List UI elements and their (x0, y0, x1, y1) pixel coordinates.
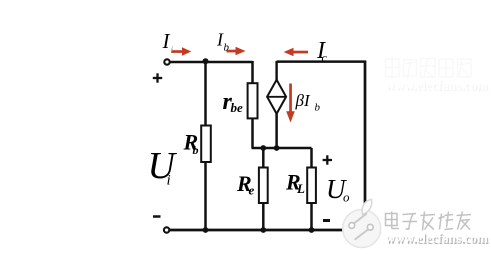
plus sign input (153, 73, 162, 82)
current arrow I_b (227, 47, 246, 56)
watermark text dianzifashaoyou (bottom right) (386, 212, 472, 231)
resistor R_L (307, 168, 316, 204)
node rail-RL junction (309, 227, 315, 233)
svg-text:o: o (343, 190, 350, 205)
svg-text:b: b (193, 143, 199, 157)
wire top-left horizontal (input node) (170, 61, 253, 64)
wire R_e bottom (262, 203, 265, 230)
wire r_be bottom (251, 118, 254, 148)
wire R_b top (204, 62, 207, 126)
resistor r_be (248, 83, 258, 118)
node E1 junction (260, 145, 266, 151)
node E2 junction (274, 145, 280, 151)
svg-text:βI: βI (295, 91, 311, 110)
wire current-source bottom (275, 114, 278, 148)
svg-text:e: e (249, 183, 255, 198)
svg-text:be: be (231, 100, 244, 115)
minus sign output (323, 219, 330, 222)
node rail-Rb junction (203, 227, 209, 233)
watermark text faint (top right) (385, 57, 489, 94)
current arrow I_c (284, 48, 308, 57)
wire r_be top (251, 61, 254, 84)
wire R_L top (310, 148, 313, 168)
resistor R_b (201, 126, 211, 163)
svg-text:U: U (148, 145, 178, 187)
wire emitter node horizontal (252, 147, 312, 150)
node B junction (203, 58, 209, 64)
wire top-right horizontal (collector node) (277, 60, 367, 63)
wire R_L bottom (310, 203, 313, 230)
watermark text www.elecfans.com (bottom right) (385, 231, 489, 247)
node rail-Re junction (260, 227, 266, 233)
current arrow I_i (172, 47, 192, 56)
terminal input top (164, 59, 169, 64)
terminal input bottom (164, 227, 169, 232)
svg-text:I: I (162, 29, 171, 53)
svg-text:www.elecfans.com: www.elecfans.com (385, 231, 488, 246)
wire current-source top (275, 61, 277, 80)
wire right vertical (364, 61, 367, 230)
resistor R_e (259, 168, 268, 204)
wire R_e top (262, 148, 265, 168)
minus sign input (153, 215, 161, 218)
plus sign output (323, 155, 332, 164)
svg-text:b: b (315, 102, 321, 114)
current source U1 diamond (267, 80, 286, 114)
current arrow beta-I_b (286, 84, 295, 123)
svg-text:L: L (296, 181, 305, 196)
wire R_b bottom (204, 162, 207, 230)
watermark logo circle (bottom right) (343, 200, 381, 248)
svg-text:b: b (224, 42, 230, 54)
svg-text:i: i (167, 173, 171, 189)
svg-text:www.elecfans.com: www.elecfans.com (385, 78, 488, 93)
wire bottom rail (170, 229, 366, 232)
svg-text:c: c (322, 51, 328, 65)
